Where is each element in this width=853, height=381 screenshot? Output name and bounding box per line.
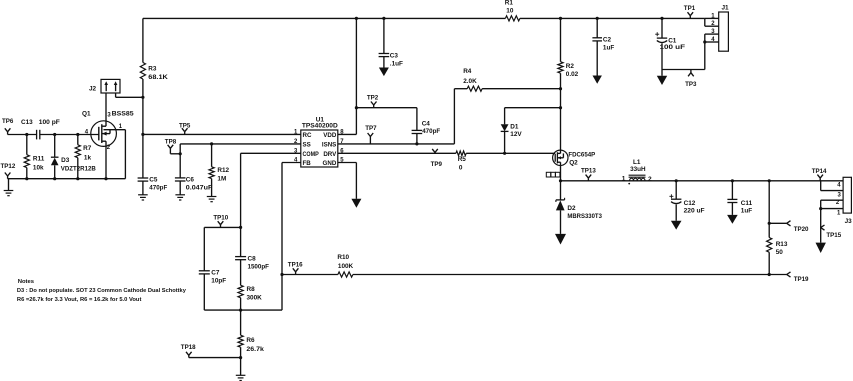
wire Q2 drain down <box>560 166 562 181</box>
wire J2 pin to node <box>115 93 117 97</box>
ground <box>816 243 826 253</box>
svg-text:D2: D2 <box>567 205 576 212</box>
wire R2 to Q2 <box>560 73 562 150</box>
wire C1 to J1 ground pins <box>662 69 705 71</box>
wire R4 left leg <box>453 89 455 144</box>
wire RC node to C5 <box>142 134 144 178</box>
test point TP19 <box>787 272 809 283</box>
wire R7 to bottom <box>77 158 79 179</box>
junction switch node <box>559 179 562 182</box>
capacitor C12 <box>669 194 704 214</box>
wire rail to R2 <box>560 18 562 61</box>
wire GND down <box>355 163 357 199</box>
wire to D3 <box>54 135 56 157</box>
svg-text:BSS85: BSS85 <box>112 111 134 118</box>
svg-text:220 uF: 220 uF <box>684 207 705 214</box>
test point TP7 <box>365 125 377 144</box>
svg-text:470pF: 470pF <box>149 184 167 191</box>
ground <box>207 197 217 202</box>
svg-text:D1: D1 <box>510 124 519 131</box>
svg-text:Notes: Notes <box>18 279 35 285</box>
wire C4 bottom <box>416 134 418 144</box>
ground <box>138 195 148 200</box>
resistor R5 <box>456 151 466 171</box>
ground <box>555 234 566 245</box>
svg-text:100 pF: 100 pF <box>39 119 60 126</box>
junction rail-VDD branch <box>355 17 358 20</box>
wire C13 to Q1 gate <box>40 134 99 136</box>
wire C8 to R8 <box>240 260 242 286</box>
svg-text:300K: 300K <box>247 294 263 301</box>
svg-text:J3: J3 <box>845 218 853 225</box>
wire TP8 stem <box>169 151 171 154</box>
svg-text:RC: RC <box>303 132 312 139</box>
wire input rail left of R1 <box>143 17 506 19</box>
svg-text:R4: R4 <box>463 68 472 75</box>
wire D3 to bottom <box>54 165 56 178</box>
wire input rail right of R1 <box>520 17 705 19</box>
wire J3 pin3 stub <box>821 190 843 192</box>
wire to R7 <box>77 135 79 145</box>
resistor R10 <box>337 254 353 277</box>
svg-text:TP13: TP13 <box>581 167 596 174</box>
junction R4-R2 <box>559 87 562 90</box>
test point TP10 <box>213 214 228 227</box>
svg-text:Q2: Q2 <box>569 159 578 166</box>
svg-text:TP12: TP12 <box>1 163 16 170</box>
svg-text:1500pF: 1500pF <box>248 263 270 270</box>
test point TP13 <box>581 167 596 180</box>
wire Q1 pin1 <box>104 129 126 131</box>
test point TP9 <box>431 149 443 168</box>
svg-text:C13: C13 <box>21 119 33 126</box>
wire TP18 stem <box>188 355 190 357</box>
svg-text:0: 0 <box>459 164 463 171</box>
junction FB node <box>239 309 242 312</box>
test point TP5 <box>179 122 191 134</box>
svg-text:R1: R1 <box>505 0 514 7</box>
svg-text:DRV: DRV <box>323 151 337 158</box>
junction rail-C1 <box>660 17 663 20</box>
wire U1 pin8 VDD <box>338 133 357 135</box>
svg-text:R2: R2 <box>566 63 575 70</box>
capacitor C11 <box>727 199 752 214</box>
test point TP8 <box>165 139 177 151</box>
svg-text:10: 10 <box>506 8 514 15</box>
resistor R2 <box>558 62 579 78</box>
capacitor C4 <box>412 121 441 136</box>
svg-text:J1: J1 <box>722 5 730 12</box>
svg-text:FDC654P: FDC654P <box>568 151 596 158</box>
resistor R3 <box>140 63 168 81</box>
resistor R7 <box>75 145 92 162</box>
svg-text:12V: 12V <box>510 131 522 138</box>
wire R13 to sense line <box>768 252 770 274</box>
wire C2 to ground <box>596 41 598 76</box>
junction RC node <box>141 133 144 136</box>
resistor R11 <box>24 155 45 172</box>
svg-text:C11: C11 <box>741 200 753 207</box>
wire R12 to ground <box>211 179 213 197</box>
wire C7 top leg <box>203 227 205 270</box>
wire comp to C8 <box>240 227 242 256</box>
wire R11 to bottom <box>26 168 28 179</box>
Q2 package pads <box>546 172 560 177</box>
wire J1 pin3-4 tie to ground wire <box>704 34 706 69</box>
wire SS down to C6 <box>179 144 181 178</box>
wire COMP to U1 pin3 <box>241 152 301 154</box>
wire FB to R10 <box>282 274 338 276</box>
wire comp top <box>204 226 240 228</box>
svg-text:TP18: TP18 <box>181 344 196 351</box>
capacitor C5 <box>138 177 168 192</box>
svg-text:C8: C8 <box>248 255 257 262</box>
ground <box>593 76 602 84</box>
svg-text:68.1K: 68.1K <box>148 74 168 81</box>
wire J3 pin1 stub <box>821 208 843 210</box>
capacitor C2 <box>592 37 614 52</box>
capacitor C8 <box>235 255 269 270</box>
op-amp U1 TPS40200D <box>301 117 339 168</box>
svg-text:R3: R3 <box>148 66 157 73</box>
wire comp bottom <box>204 309 282 311</box>
test point TP18 <box>181 344 196 356</box>
wire to R12 <box>211 144 213 167</box>
resistor R1 <box>505 0 520 21</box>
diode D1 <box>501 108 523 154</box>
test point TP15 <box>821 225 842 239</box>
wire to R11 <box>26 135 28 155</box>
test point TP14 <box>812 168 827 181</box>
junction D1-R2 branch <box>559 106 562 109</box>
wire output to R13 <box>768 181 770 238</box>
test point TP12 <box>1 163 16 179</box>
junction J3 pin1 <box>819 207 822 210</box>
wire J3 pin2-1 tie to ground <box>820 200 822 242</box>
junction R7 bottom <box>76 177 79 180</box>
junction TP18 <box>239 356 242 359</box>
junction comp node <box>239 226 242 229</box>
wire J1 pin4 stub <box>705 41 719 43</box>
svg-text:TP20: TP20 <box>794 226 809 233</box>
junction R11 top <box>25 133 28 136</box>
test point TP1 <box>684 5 696 18</box>
svg-text:COMP: COMP <box>303 151 319 158</box>
junction J1 pin4 <box>703 40 706 43</box>
wire bottom return <box>8 178 126 180</box>
wire switch node to D2 <box>560 181 562 200</box>
wire FB node to R6 <box>240 310 242 335</box>
junction C4-ISNS <box>415 142 418 145</box>
capacitor C7 <box>199 270 227 285</box>
wire COMP down <box>240 153 242 227</box>
wire TP20 stub <box>769 222 787 224</box>
test point TP3 <box>685 70 697 88</box>
wire R6 to ground <box>240 347 242 375</box>
svg-text:.1uF: .1uF <box>390 60 403 67</box>
resistor R13 <box>767 238 788 256</box>
test point TP16 <box>288 262 303 275</box>
svg-text:TP16: TP16 <box>288 262 303 269</box>
wire rail to C1 <box>661 18 663 38</box>
connector J2 <box>89 79 120 93</box>
wire TP8 to SS <box>170 153 180 155</box>
svg-text:1M: 1M <box>217 176 226 183</box>
capacitor C3 <box>379 53 403 68</box>
resistor R12 <box>209 167 230 183</box>
wire FB down <box>281 163 283 311</box>
capacitor C1 <box>655 32 685 51</box>
junction TP8 <box>179 152 182 155</box>
wire TP18 to R6 bottom <box>189 357 241 359</box>
wire C7 bottom leg <box>203 274 205 310</box>
wire R10 to output sense <box>353 274 787 276</box>
svg-text:1k: 1k <box>84 154 92 161</box>
resistor R4 <box>463 68 482 91</box>
wire C5 to ground <box>142 181 144 195</box>
capacitor C6 <box>175 176 212 191</box>
svg-text:100 uF: 100 uF <box>660 44 686 51</box>
test point TP2 <box>367 95 379 108</box>
diode D2 <box>556 198 602 220</box>
svg-text:R7: R7 <box>83 145 92 152</box>
svg-text:50: 50 <box>776 249 784 256</box>
wire TP6 to C13 <box>8 134 37 136</box>
svg-text:SS: SS <box>303 141 311 148</box>
wire J1 pin1-2 tie <box>704 18 706 26</box>
svg-text:2: 2 <box>648 176 652 183</box>
wire R4 lead <box>454 88 467 90</box>
junction R13 bottom <box>768 273 771 276</box>
svg-text:GND: GND <box>323 160 337 167</box>
svg-text:TP3: TP3 <box>685 81 697 88</box>
svg-text:TP6: TP6 <box>2 118 14 125</box>
wire C4 top <box>416 108 418 131</box>
svg-text:TP9: TP9 <box>431 161 443 168</box>
svg-text:Q1: Q1 <box>82 111 91 118</box>
svg-text:R5: R5 <box>458 156 467 163</box>
wire J1 pin1 stub <box>705 17 719 19</box>
junction R11 bottom <box>25 177 28 180</box>
svg-text:1uF: 1uF <box>741 207 752 214</box>
svg-text:TP7: TP7 <box>365 125 377 132</box>
svg-text:100K: 100K <box>338 263 354 270</box>
wire J2 to Q1 drain <box>105 93 107 121</box>
svg-text:C5: C5 <box>149 177 158 184</box>
resistor R6 <box>238 335 264 353</box>
note text <box>17 279 187 303</box>
wire VDD vertical <box>355 18 357 134</box>
ground <box>351 199 361 208</box>
ground <box>175 195 185 200</box>
connector J1 <box>719 5 729 52</box>
svg-text:TP15: TP15 <box>826 232 841 239</box>
resistor R8 <box>238 285 262 301</box>
svg-text:TP5: TP5 <box>179 122 191 129</box>
svg-text:R11: R11 <box>33 156 45 163</box>
capacitor C13 <box>21 119 60 139</box>
svg-text:TP2: TP2 <box>367 95 379 102</box>
svg-text:10pF: 10pF <box>211 278 226 285</box>
svg-text:33uH: 33uH <box>630 166 646 173</box>
transistor Q1 <box>82 111 134 151</box>
wire to ground <box>8 179 10 191</box>
wire U1 pin6 DRV <box>338 152 456 154</box>
wire SS to U1 pin2 <box>180 143 301 145</box>
svg-text:470pF: 470pF <box>422 128 440 135</box>
svg-text:2.0K: 2.0K <box>463 78 477 85</box>
svg-text:C12: C12 <box>684 200 696 207</box>
svg-text:TP14: TP14 <box>812 168 827 175</box>
svg-text:1: 1 <box>622 176 626 183</box>
wire J1 pin2 stub <box>705 25 719 27</box>
svg-text:TPS40200D: TPS40200D <box>302 122 338 129</box>
junction C11 <box>731 179 734 182</box>
junction R13 <box>768 179 771 182</box>
junction FB-R10 <box>280 273 283 276</box>
svg-text:R6: R6 <box>246 337 255 344</box>
junction C12 <box>675 179 678 182</box>
junction TP2 wire <box>355 106 358 109</box>
svg-text:MBRS330T3: MBRS330T3 <box>567 213 602 220</box>
wire J1 pin3 stub <box>705 33 719 35</box>
wire C1 bottom <box>661 43 663 69</box>
wire C12 to ground <box>675 204 677 220</box>
svg-text:TP10: TP10 <box>213 214 228 221</box>
junction TP20 <box>768 222 771 225</box>
wire R3 to RC node <box>142 79 144 134</box>
wire U1 pin5 GND <box>338 162 357 164</box>
wire Q1 pin2 down <box>105 146 107 179</box>
svg-text:R8: R8 <box>247 286 256 293</box>
svg-text:C4: C4 <box>422 121 431 128</box>
svg-text:VDD: VDD <box>323 132 337 139</box>
junction D3 bottom <box>53 177 56 180</box>
svg-text:R13: R13 <box>776 241 788 248</box>
junction rail-R2 <box>559 17 562 20</box>
junction R12 top <box>210 142 213 145</box>
wire RC to U1 pin1 <box>143 133 301 135</box>
ground <box>379 68 389 77</box>
wire C6 to ground <box>179 181 181 195</box>
svg-text:R10: R10 <box>337 254 349 261</box>
wire TP2 to C4 <box>356 107 417 109</box>
junction J2 branch <box>141 96 144 99</box>
wire J3 pin2 stub <box>821 199 843 201</box>
svg-text:J2: J2 <box>89 86 97 93</box>
svg-text:1uF: 1uF <box>603 44 614 51</box>
svg-text:L1: L1 <box>633 159 641 166</box>
svg-text:10k: 10k <box>33 165 44 172</box>
junction D3 top <box>53 133 56 136</box>
svg-text:ISNS: ISNS <box>322 141 336 148</box>
ground <box>657 70 667 86</box>
junction R7 top <box>76 133 79 136</box>
ground <box>727 215 738 224</box>
wire C3 to ground <box>383 57 385 68</box>
pin numbers J1 <box>711 13 715 43</box>
junction rail-C3 <box>382 17 385 20</box>
wire FB to U1 pin4 <box>282 162 301 164</box>
svg-text:D3: D3 <box>61 157 70 164</box>
ground <box>4 191 14 196</box>
wire R4 to R2 node <box>482 88 560 90</box>
svg-text:D3 : Do not populate. SOT 23 C: D3 : Do not populate. SOT 23 Common Cath… <box>17 288 187 294</box>
pin numbers U1 <box>294 129 344 163</box>
wire D2 to ground <box>560 210 562 234</box>
svg-text:TP8: TP8 <box>165 139 177 146</box>
wire Q1 pin1 down <box>124 130 126 179</box>
pin numbers J3 <box>836 183 842 217</box>
svg-text:C7: C7 <box>211 270 220 277</box>
wire D1 to Q2 source node <box>505 107 561 109</box>
wire C11 to ground <box>731 203 733 215</box>
test point TP6 <box>2 118 14 134</box>
svg-text:TP1: TP1 <box>684 5 696 12</box>
svg-text:C6: C6 <box>186 176 195 183</box>
wire R8 to FB node <box>240 298 242 310</box>
transistor Q2 <box>553 150 596 166</box>
wire J3 pin4-3 tie <box>820 181 822 191</box>
ground <box>236 375 246 380</box>
svg-text:26.7k: 26.7k <box>246 346 264 353</box>
wire rail to C2 <box>596 18 598 37</box>
wire J2 to R3 node <box>116 96 143 98</box>
connector J3 <box>843 177 852 225</box>
svg-text:C2: C2 <box>603 37 612 44</box>
svg-text:R12: R12 <box>217 167 229 174</box>
wire switch node through L1 to output <box>561 180 844 182</box>
svg-text:R6 =26.7k for 3.3 Vout, R6 = 1: R6 =26.7k for 3.3 Vout, R6 = 16.2k for 5… <box>17 297 142 303</box>
test point TP20 <box>787 221 809 233</box>
inductor L1 <box>622 159 652 185</box>
wire rail to R3 <box>142 18 144 62</box>
diode D3 <box>51 157 96 173</box>
junction D1-DRV <box>503 152 506 155</box>
junction rail-C2 <box>596 17 599 20</box>
wire to C11 <box>731 181 733 200</box>
wire to C12 <box>675 181 677 199</box>
svg-text:0.047uF: 0.047uF <box>186 184 213 191</box>
wire R5 to Q2 gate <box>466 152 555 154</box>
svg-text:VDZT2R12B: VDZT2R12B <box>61 166 96 173</box>
svg-text:TP19: TP19 <box>794 276 809 283</box>
wire U1 pin7 ISNS <box>338 143 455 145</box>
svg-text:0.02: 0.02 <box>566 71 579 78</box>
svg-text:FB: FB <box>303 160 312 167</box>
svg-text:C3: C3 <box>390 53 399 60</box>
wire rail to C3 <box>383 18 385 53</box>
ground <box>671 221 682 230</box>
junction Q1 pin2 bottom <box>104 177 107 180</box>
